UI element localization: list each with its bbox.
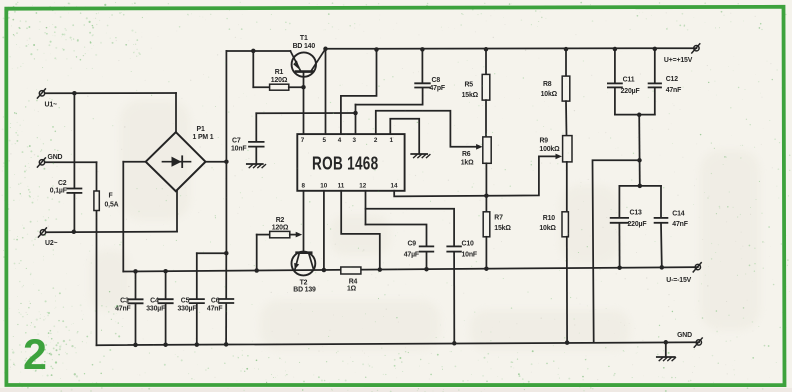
wire IC pin 10 down <box>323 191 325 270</box>
wire bridge right riser <box>206 161 227 163</box>
diode inside bridge <box>163 161 191 163</box>
capacitor C10 10nF <box>447 245 461 247</box>
svg-text:10kΩ: 10kΩ <box>539 225 556 232</box>
node U2~ input terminal <box>40 230 45 235</box>
svg-text:10nF: 10nF <box>231 146 246 153</box>
wire T1 base to IC pin 7 <box>303 73 305 134</box>
node C11 rail junction <box>613 47 618 52</box>
svg-text:C8: C8 <box>432 77 441 84</box>
filter capacitor C3 47nF <box>135 271 137 298</box>
svg-text:BD 139: BD 139 <box>293 286 316 293</box>
wire IC pin 1 to ground <box>390 119 419 154</box>
wire +15V top rail (right of T1) <box>326 47 697 50</box>
svg-text:R8: R8 <box>543 81 552 88</box>
potentiometer R6 1k <box>483 137 491 163</box>
svg-text:5: 5 <box>322 137 326 144</box>
node C8 rail junction <box>420 47 425 52</box>
bridge rectifier P1 1PM1 <box>146 132 206 191</box>
node U1~ input terminal <box>39 91 44 96</box>
svg-text:C6: C6 <box>211 298 220 305</box>
capacitor C2 0,1uF <box>73 93 75 188</box>
svg-text:U-=-15V: U-=-15V <box>666 277 691 284</box>
node bridge-right tee <box>224 159 229 164</box>
filter capacitor C4 330uF <box>165 271 167 299</box>
svg-text:47nF: 47nF <box>666 87 681 94</box>
svg-text:2: 2 <box>374 137 378 144</box>
transistor T1 BD140 (PNP pass) <box>292 52 316 76</box>
svg-text:11: 11 <box>338 182 345 189</box>
svg-text:C2: C2 <box>58 180 67 187</box>
svg-text:U1~: U1~ <box>45 102 58 109</box>
op-amp regulator U1 ROB 1468 box <box>297 134 404 191</box>
node C3 bus junction <box>133 269 138 274</box>
node pin3 junction <box>353 111 358 116</box>
node U+=+15V output terminal <box>694 46 699 51</box>
svg-text:0,5A: 0,5A <box>105 202 119 209</box>
wire IC pin 11 down <box>341 191 380 270</box>
svg-text:120Ω: 120Ω <box>271 77 288 84</box>
svg-text:R5: R5 <box>464 81 473 88</box>
wire IC pin 12 to C9 and C10 <box>365 191 367 225</box>
node R10 ground junction <box>565 340 570 345</box>
resistor R1 120ohm <box>252 51 254 87</box>
svg-text:C9: C9 <box>407 240 416 247</box>
node mid link branch <box>637 158 642 163</box>
filter capacitor C5 330uF <box>196 253 198 298</box>
node C12 rail junction <box>653 47 658 52</box>
svg-text:100kΩ: 100kΩ <box>539 146 560 153</box>
node GND input terminal <box>39 160 44 165</box>
ground symbol bottom right <box>665 342 667 357</box>
filter capacitor C6 47nF <box>225 253 227 298</box>
svg-text:14: 14 <box>390 182 398 189</box>
wire branch to ground rail <box>593 160 640 342</box>
wire IC pin 3 node <box>355 105 357 135</box>
svg-text:GND: GND <box>48 154 63 161</box>
svg-text:P1: P1 <box>197 126 205 133</box>
capacitor C9 47uF <box>420 245 434 247</box>
svg-text:10kΩ: 10kΩ <box>541 91 558 98</box>
svg-text:C12: C12 <box>666 76 679 83</box>
svg-text:1Ω: 1Ω <box>347 285 357 292</box>
svg-text:BD 140: BD 140 <box>293 43 316 50</box>
wire IC pin 4 to +15V rail <box>341 50 377 135</box>
svg-text:C11: C11 <box>623 76 635 83</box>
node pin10 rail junction <box>322 268 327 273</box>
capacitor C8 47pF <box>421 49 423 82</box>
node U-=-15V output terminal <box>695 264 700 269</box>
wire C5 to C6 link <box>197 252 227 254</box>
svg-text:C13: C13 <box>630 210 643 217</box>
svg-text:47nF: 47nF <box>672 221 687 228</box>
svg-text:R7: R7 <box>494 215 503 222</box>
wire C13/C14 top bar <box>619 185 661 187</box>
node mid link top <box>637 113 642 118</box>
ground at pin 1 <box>411 153 427 155</box>
resistor R4 1ohm (in rail) <box>341 267 361 274</box>
svg-text:1 PM 1: 1 PM 1 <box>193 134 214 141</box>
node GND output stub <box>664 340 669 345</box>
node C14 rail junction <box>660 265 665 270</box>
node C13 rail junction <box>617 265 622 270</box>
svg-text:R2: R2 <box>276 217 285 224</box>
wire -15V rail <box>123 267 698 271</box>
resistor R8 10k <box>565 49 567 76</box>
node C10 ground junction <box>452 341 457 346</box>
svg-text:GND: GND <box>677 332 692 339</box>
svg-text:7: 7 <box>301 137 305 144</box>
node C4 bus junction <box>163 269 168 274</box>
transistor T2 BD139 (NPN pass) <box>292 252 316 276</box>
wire U1 to bridge top <box>45 92 176 94</box>
wire mid link down to C13/C14 <box>638 115 641 186</box>
wire U2 to bridge bottom <box>46 231 177 234</box>
svg-text:F: F <box>109 193 113 200</box>
resistor R2 120ohm <box>256 235 258 271</box>
svg-text:15kΩ: 15kΩ <box>494 225 511 232</box>
node T1 collector / pin5 junction <box>323 47 328 52</box>
capacitor C13 220uF <box>618 186 620 218</box>
svg-text:4: 4 <box>338 137 342 144</box>
svg-text:R1: R1 <box>275 69 284 76</box>
svg-text:R10: R10 <box>543 215 556 222</box>
svg-text:C10: C10 <box>462 240 475 247</box>
faint print bleed-through blobs <box>90 100 760 350</box>
svg-text:T2: T2 <box>300 279 308 286</box>
svg-text:10nF: 10nF <box>462 252 477 259</box>
svg-text:0,1µF: 0,1µF <box>50 188 67 195</box>
svg-text:47pF: 47pF <box>430 85 445 92</box>
svg-text:15kΩ: 15kΩ <box>462 92 479 99</box>
svg-text:C4: C4 <box>150 298 159 305</box>
wire IC pin 14 to R6/R7 node and R9 wiper <box>394 156 556 196</box>
resistor R7 15k <box>485 196 487 212</box>
capacitor C7 10nF <box>249 141 264 143</box>
node pin14/R6/R7 junction <box>484 193 489 198</box>
fuse F 0,5A <box>94 191 99 211</box>
node C6 link junction <box>224 251 229 256</box>
svg-text:R6: R6 <box>462 151 471 158</box>
node R2 rail junction <box>254 268 259 273</box>
svg-text:120Ω: 120Ω <box>272 224 289 231</box>
potentiometer R9 100k <box>563 136 572 162</box>
svg-text:10: 10 <box>320 182 328 189</box>
svg-text:C14: C14 <box>672 210 685 217</box>
wire IC pin 8 to T2 base <box>303 191 305 253</box>
svg-text:ROB 1468: ROB 1468 <box>312 153 379 173</box>
wire bridge left to raw-minus bus <box>123 161 145 163</box>
capacitor C14 47nF <box>660 186 662 218</box>
wire raw+ top rail (left of T1) <box>226 50 290 52</box>
resistor R5 15k <box>485 49 487 74</box>
svg-text:47µF: 47µF <box>404 252 419 259</box>
svg-text:U2~: U2~ <box>45 240 58 247</box>
svg-text:330µF: 330µF <box>177 306 196 313</box>
node R7 rail junction <box>484 266 489 271</box>
svg-text:8: 8 <box>301 182 305 189</box>
wire C11/C12 bottom bar <box>615 114 655 116</box>
node GND output terminal <box>696 340 701 345</box>
resistor R10 10k <box>562 212 568 237</box>
capacitor C11 220uF <box>614 49 616 83</box>
node R5 rail junction <box>484 47 489 52</box>
svg-text:U+=+15V: U+=+15V <box>664 57 693 64</box>
svg-text:220µF: 220µF <box>621 88 640 95</box>
node R1 top junction <box>251 49 256 54</box>
svg-text:C3: C3 <box>120 298 129 305</box>
svg-text:C5: C5 <box>181 298 190 305</box>
svg-text:R9: R9 <box>539 138 548 145</box>
capacitor C12 47nF <box>654 49 656 83</box>
wire pin3 to C8 <box>356 88 423 105</box>
svg-text:C7: C7 <box>232 138 241 145</box>
svg-text:2: 2 <box>23 331 47 379</box>
wire GND to fuse <box>45 161 97 163</box>
svg-text:330µF: 330µF <box>146 306 165 313</box>
node C9 rail junction <box>424 267 429 272</box>
node R1/base junction <box>301 85 306 90</box>
node pin11 rail junction <box>378 267 383 272</box>
svg-text:12: 12 <box>359 182 367 189</box>
node junction U2/C2 <box>72 230 77 235</box>
wire IC pin 5 riser <box>325 49 327 134</box>
node C13/C14 top <box>638 184 643 189</box>
svg-text:220µF: 220µF <box>628 221 647 228</box>
ground below C7 <box>247 163 263 165</box>
svg-text:T1: T1 <box>300 35 308 42</box>
svg-text:3: 3 <box>352 137 356 144</box>
wire ground bottom rail <box>97 342 700 345</box>
node pin4 rail junction <box>374 47 379 52</box>
svg-text:47nF: 47nF <box>207 305 222 312</box>
wire IC pin 2 to R6 wiper <box>376 111 477 147</box>
node R8 rail junction <box>564 47 569 52</box>
svg-text:1kΩ: 1kΩ <box>461 160 474 167</box>
node junction U1/C2 <box>72 91 77 96</box>
